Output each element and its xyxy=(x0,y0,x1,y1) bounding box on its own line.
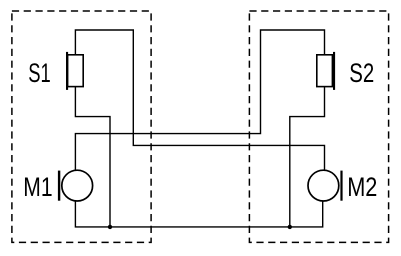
junction left xyxy=(108,225,112,229)
microphone M2 xyxy=(308,170,343,201)
junction right xyxy=(288,225,292,229)
svg-text:S2: S2 xyxy=(349,57,374,88)
wire S1 bottom to bus xyxy=(75,87,110,227)
earpiece S2 xyxy=(317,52,335,90)
svg-text:S1: S1 xyxy=(28,57,51,88)
station 1 enclosure (dashed box) xyxy=(12,11,151,242)
station 2 enclosure (dashed box) xyxy=(249,11,388,242)
microphone M1 xyxy=(58,170,93,201)
wire bottom bus M1 to M2 xyxy=(75,201,322,227)
svg-text:M1: M1 xyxy=(23,171,52,202)
wire S1 top to M2 top xyxy=(75,30,324,171)
wire S2 top to M1 top xyxy=(75,30,324,171)
earpiece S1 xyxy=(66,52,83,90)
wire S2 bottom to bus xyxy=(290,87,325,227)
svg-text:M2: M2 xyxy=(347,171,377,202)
